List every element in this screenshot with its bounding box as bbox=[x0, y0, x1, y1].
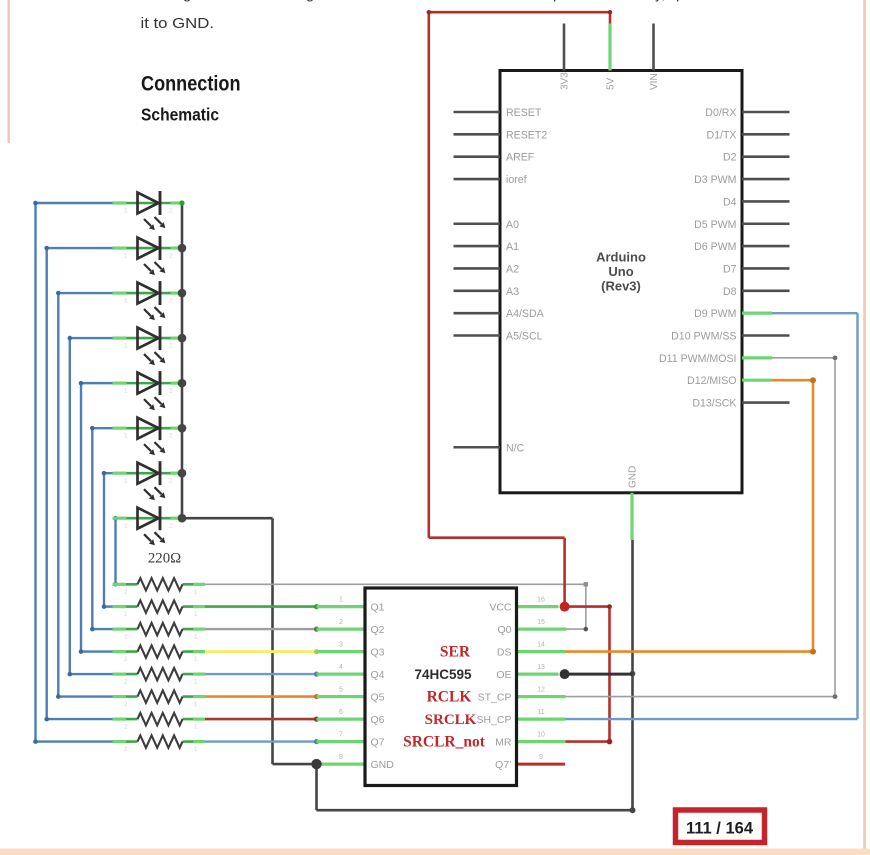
resistor R7 220Ω bbox=[113, 713, 206, 731]
junction dot red wire top left corner bbox=[427, 10, 431, 14]
svg-text:Q0: Q0 bbox=[497, 624, 511, 636]
junction dot bottom rail right corner bbox=[630, 807, 636, 813]
resistor R8 220Ω bbox=[113, 735, 206, 753]
junction dot OE tee on ground riser bbox=[630, 671, 636, 677]
svg-text:D1/TX: D1/TX bbox=[706, 129, 736, 141]
junction dot R5 bottom corner bbox=[68, 672, 73, 677]
pin 5V of Arduino (green stub) bbox=[606, 24, 617, 91]
svg-text:2: 2 bbox=[124, 746, 128, 753]
junction dot LED8 top corner bbox=[113, 516, 118, 521]
junction dot R3 bottom corner bbox=[90, 627, 95, 632]
junction dot VCC (red) bbox=[560, 602, 570, 612]
wire LED6 anode to R3 (blue) bbox=[92, 428, 112, 629]
pin stub Q2 of U1 (green) bbox=[317, 627, 366, 630]
page border right (pink) bbox=[863, 0, 866, 855]
page footer bar (peach) bbox=[0, 849, 870, 855]
truncated text line at top edge bbox=[183, 0, 684, 3]
pin VIN of Arduino bbox=[649, 24, 660, 91]
svg-text:1: 1 bbox=[194, 634, 198, 641]
wire R2 to Q1 (green) bbox=[205, 605, 317, 608]
svg-text:SRCLK: SRCLK bbox=[425, 712, 477, 728]
svg-text:13: 13 bbox=[537, 664, 545, 671]
svg-text:DS: DS bbox=[497, 647, 512, 659]
wire LED8 anode to R1 (blue) bbox=[113, 518, 116, 584]
svg-text:2: 2 bbox=[169, 208, 173, 215]
junction dot VCC right corner (red) bbox=[607, 604, 612, 609]
junction dot GND of U1 (black) bbox=[311, 759, 321, 769]
junction dot LED4 top corner bbox=[68, 336, 73, 341]
svg-text:6: 6 bbox=[339, 709, 343, 716]
junction dot LED5 top corner bbox=[79, 381, 84, 386]
svg-text:D0/RX: D0/RX bbox=[705, 107, 736, 119]
pin A4/SDA of Arduino bbox=[454, 308, 545, 320]
svg-text:111 / 164: 111 / 164 bbox=[686, 820, 754, 838]
LED D6 bbox=[113, 416, 181, 455]
pin A2 of Arduino bbox=[454, 263, 520, 275]
svg-text:8: 8 bbox=[339, 754, 343, 761]
svg-text:ioref: ioref bbox=[506, 174, 527, 186]
svg-text:D11 PWM/MOSI: D11 PWM/MOSI bbox=[659, 353, 737, 365]
svg-text:p: p bbox=[676, 0, 684, 3]
svg-text:4: 4 bbox=[339, 664, 343, 671]
svg-text:A2: A2 bbox=[506, 263, 519, 275]
svg-text:D2: D2 bbox=[723, 152, 737, 164]
svg-text:N/C: N/C bbox=[506, 442, 525, 454]
junction dot LED2 top corner bbox=[44, 246, 49, 251]
svg-text:1: 1 bbox=[124, 343, 128, 350]
label Arduino Uno (Rev3) bbox=[596, 250, 646, 294]
resistor R4 220Ω bbox=[113, 645, 206, 663]
svg-text:Q2: Q2 bbox=[371, 624, 385, 636]
svg-text:220Ω: 220Ω bbox=[148, 551, 181, 567]
junction dot Q0 wire bbox=[584, 627, 589, 632]
junction dot ST_CP corner (gray) bbox=[833, 694, 838, 699]
svg-text:GND: GND bbox=[628, 466, 639, 488]
svg-text:1: 1 bbox=[194, 656, 198, 663]
LED D5 bbox=[113, 371, 181, 410]
svg-text:14: 14 bbox=[537, 642, 545, 649]
svg-text:D6 PWM: D6 PWM bbox=[694, 241, 736, 253]
junction dot R6 bottom corner bbox=[56, 694, 61, 699]
wire 5V supply: Arduino 5V to U1 VCC (red) bbox=[429, 12, 610, 606]
module Arduino Uno (Rev3) body bbox=[500, 71, 742, 493]
junction dot LED6 cathode bbox=[178, 424, 187, 433]
pin A3 of Arduino bbox=[454, 286, 520, 298]
svg-text:A4/SDA: A4/SDA bbox=[506, 308, 545, 320]
pin stub OE of U1 (green) bbox=[517, 672, 559, 675]
pin RESET of Arduino bbox=[454, 107, 542, 119]
page border left (pink) bbox=[7, 0, 9, 143]
wire OE to ground riser (black) bbox=[565, 673, 633, 676]
LED D2 bbox=[113, 236, 181, 275]
wire LED1 anode to R8 (blue) bbox=[36, 203, 113, 742]
svg-text:Q1: Q1 bbox=[371, 602, 385, 614]
junction dot at Q3 wire end bbox=[314, 649, 319, 654]
svg-text:y,: y, bbox=[655, 0, 666, 3]
pin D7 of Arduino bbox=[723, 263, 790, 275]
svg-text:2: 2 bbox=[124, 634, 128, 641]
wire SH_CP to Arduino D9 (blue) bbox=[566, 313, 858, 719]
wire LED cathode bus (dark) bbox=[181, 203, 184, 518]
pin D3 PWM of Arduino bbox=[694, 174, 789, 186]
svg-text:it to GND.: it to GND. bbox=[141, 15, 215, 32]
junction dot LED7 cathode bbox=[178, 469, 187, 478]
svg-text:2: 2 bbox=[124, 701, 128, 708]
wire R7 to Q6 (red) bbox=[205, 718, 317, 721]
svg-text:SH_CP: SH_CP bbox=[476, 714, 511, 726]
svg-text:D4: D4 bbox=[723, 196, 737, 208]
pin D1/TX of Arduino bbox=[706, 129, 789, 141]
junction dot LED1 top corner bbox=[33, 201, 38, 206]
wire VCC to MR (red) bbox=[565, 607, 610, 742]
wire LED7 anode to R2 (blue) bbox=[104, 473, 113, 606]
wire LED2 anode to R7 (blue) bbox=[47, 248, 113, 719]
junction dot D12 corner top (orange) bbox=[810, 377, 816, 383]
junction dot R8 bottom corner bbox=[33, 739, 38, 744]
svg-text:1: 1 bbox=[194, 701, 198, 708]
pin stub Q0 of U1 (green) bbox=[517, 627, 567, 630]
pin GND of Arduino (green stub) bbox=[628, 466, 639, 540]
svg-text:Q5: Q5 bbox=[371, 692, 385, 704]
pin N/C of Arduino bbox=[454, 442, 525, 454]
svg-text:11: 11 bbox=[537, 709, 544, 716]
svg-text:1: 1 bbox=[194, 679, 198, 686]
svg-text:RESET: RESET bbox=[506, 107, 542, 119]
LED D7 bbox=[113, 461, 181, 500]
junction dot LED2 cathode bbox=[178, 244, 187, 253]
pin D0/RX of Arduino bbox=[705, 107, 789, 119]
junction dot red wire top right corner bbox=[608, 10, 612, 14]
svg-text:RCLK: RCLK bbox=[427, 689, 472, 706]
svg-text:Q7: Q7 bbox=[371, 737, 385, 749]
svg-text:74HC595: 74HC595 bbox=[414, 667, 472, 682]
junction dot DS corner bottom (orange) bbox=[810, 649, 816, 655]
svg-text:10: 10 bbox=[537, 732, 545, 739]
junction dot R2 bottom corner bbox=[102, 604, 107, 609]
svg-text:1: 1 bbox=[124, 208, 128, 215]
pin ioref of Arduino bbox=[454, 174, 527, 186]
svg-text:1: 1 bbox=[194, 724, 198, 731]
junction dot LED5 cathode bbox=[178, 379, 187, 388]
svg-text:SRCLR_not: SRCLR_not bbox=[403, 734, 486, 751]
junction dot at Q4 wire end bbox=[314, 672, 319, 677]
svg-text:9: 9 bbox=[539, 754, 543, 761]
pin stub Q5 of U1 (green) bbox=[317, 695, 366, 698]
pin A0 of Arduino bbox=[454, 219, 520, 231]
svg-text:1: 1 bbox=[124, 298, 128, 305]
wire LED4 anode to R5 (blue) bbox=[70, 338, 113, 674]
svg-text:VIN: VIN bbox=[649, 73, 660, 90]
pin stub MR of U1 (green) bbox=[517, 740, 566, 743]
svg-text:D8: D8 bbox=[723, 286, 737, 298]
svg-text:MR: MR bbox=[495, 737, 512, 749]
wire R1 to Q0 (gray, over chip top) bbox=[205, 584, 586, 629]
svg-text:Connection: Connection bbox=[141, 73, 241, 96]
pin D11 PWM/MOSI of Arduino bbox=[659, 353, 772, 365]
wire LED bus to 74HC595 GND (black) bbox=[182, 518, 317, 764]
svg-text:A0: A0 bbox=[506, 219, 519, 231]
svg-text:2: 2 bbox=[339, 619, 343, 626]
resistor R6 220Ω bbox=[113, 690, 206, 708]
svg-text:Schematic: Schematic bbox=[141, 105, 219, 125]
pin RESET2 of Arduino bbox=[454, 129, 548, 141]
svg-text:15: 15 bbox=[537, 619, 545, 626]
svg-text:3: 3 bbox=[339, 642, 343, 649]
svg-text:1: 1 bbox=[194, 589, 198, 596]
resistor R3 220Ω bbox=[113, 623, 206, 641]
pin D10 PWM/SS of Arduino bbox=[671, 331, 789, 343]
junction dot LED1 cathode (green) bbox=[179, 200, 184, 205]
svg-text:1: 1 bbox=[194, 746, 198, 753]
svg-text:Uno: Uno bbox=[608, 264, 633, 279]
svg-text:1: 1 bbox=[124, 478, 128, 485]
page number box 111 / 164 bbox=[676, 810, 765, 843]
wire R6 to Q5 (orange) bbox=[205, 695, 317, 698]
junction dot LED4 cathode bbox=[178, 334, 187, 343]
svg-text:(Rev3): (Rev3) bbox=[601, 279, 641, 294]
wire LED5 anode to R4 (blue) bbox=[81, 383, 113, 651]
svg-text:5: 5 bbox=[339, 687, 343, 694]
svg-text:2: 2 bbox=[169, 253, 173, 260]
svg-text:2: 2 bbox=[124, 656, 128, 663]
svg-text:2: 2 bbox=[169, 298, 173, 305]
pin stub DS of U1 (green) bbox=[517, 650, 566, 653]
svg-text:g: g bbox=[306, 0, 314, 3]
wire DS to Arduino D12/MISO (orange) bbox=[566, 380, 814, 651]
junction dot OE (black) bbox=[560, 669, 570, 679]
junction dot at Q1 wire end bbox=[314, 604, 319, 609]
svg-text:12: 12 bbox=[537, 687, 545, 694]
IC U1 74HC595 body bbox=[365, 588, 517, 786]
pin D6 PWM of Arduino bbox=[694, 241, 789, 253]
pin stub Q7 of U1 (green) bbox=[317, 740, 366, 743]
pin stub VCC of U1 (green) bbox=[517, 605, 559, 608]
svg-text:Q6: Q6 bbox=[371, 714, 385, 726]
pin D5 PWM of Arduino bbox=[694, 219, 789, 231]
junction dot LED7 top corner bbox=[102, 471, 107, 476]
junction dot at Q7 wire end bbox=[314, 739, 319, 744]
pin D12/MISO of Arduino bbox=[687, 375, 772, 387]
svg-text:D5 PWM: D5 PWM bbox=[694, 219, 736, 231]
svg-text:Q3: Q3 bbox=[371, 647, 385, 659]
svg-text:2: 2 bbox=[169, 433, 173, 440]
svg-text:OE: OE bbox=[496, 669, 511, 681]
svg-text:ST_CP: ST_CP bbox=[478, 692, 512, 704]
junction dot R7 bottom corner bbox=[44, 717, 49, 722]
pin stub Q1 of U1 (green) bbox=[317, 605, 366, 608]
junction dot at Q5 wire end bbox=[314, 694, 319, 699]
svg-text:2: 2 bbox=[124, 611, 128, 618]
LED D4 bbox=[113, 326, 181, 365]
svg-text:2: 2 bbox=[169, 523, 173, 530]
svg-text:1: 1 bbox=[339, 597, 343, 604]
svg-text:A3: A3 bbox=[506, 286, 519, 298]
junction square R1 wire corner bbox=[584, 582, 588, 586]
LED D8 bbox=[113, 506, 181, 545]
svg-text:2: 2 bbox=[169, 388, 173, 395]
junction dot LED8 cathode bbox=[178, 514, 187, 523]
wire R4 to Q3 (yellow) bbox=[205, 650, 317, 653]
pin stub SH_CP of U1 (green) bbox=[517, 717, 566, 720]
LED D3 bbox=[113, 281, 181, 320]
svg-text:p: p bbox=[553, 0, 561, 3]
wire Q7' stub (red) bbox=[517, 763, 565, 766]
pin D9 PWM of Arduino bbox=[694, 308, 772, 320]
svg-text:2: 2 bbox=[124, 589, 128, 596]
wire GND junction down to bottom rail (black) bbox=[317, 540, 633, 810]
pin stub Q4 of U1 (green) bbox=[317, 672, 366, 675]
svg-text:AREF: AREF bbox=[506, 152, 535, 164]
svg-text:7: 7 bbox=[339, 732, 343, 739]
junction dot LED3 cathode bbox=[178, 289, 187, 298]
wire R5 to Q4 (blue) bbox=[205, 673, 317, 675]
resistor R1 220Ω bbox=[113, 578, 206, 596]
junction dot LED6 top corner bbox=[90, 426, 95, 431]
svg-text:D13/SCK: D13/SCK bbox=[692, 398, 736, 410]
pin stub ST_CP of U1 (green) bbox=[517, 695, 566, 698]
svg-text:16: 16 bbox=[537, 597, 545, 604]
pin A1 of Arduino bbox=[454, 241, 520, 253]
resistor R5 220Ω bbox=[113, 668, 206, 686]
svg-text:A1: A1 bbox=[506, 241, 519, 253]
svg-text:D3 PWM: D3 PWM bbox=[694, 174, 736, 186]
svg-text:SER: SER bbox=[440, 644, 471, 661]
pin AREF of Arduino bbox=[454, 152, 535, 164]
svg-text:2: 2 bbox=[169, 343, 173, 350]
svg-text:1: 1 bbox=[194, 611, 198, 618]
wire ST_CP to Arduino D11 (gray) bbox=[566, 358, 836, 697]
junction dot D11 corner (gray) bbox=[833, 355, 838, 360]
svg-text:RESET2: RESET2 bbox=[506, 129, 547, 141]
pin D8 of Arduino bbox=[723, 286, 790, 298]
svg-text:1: 1 bbox=[124, 253, 128, 260]
svg-text:D9 PWM: D9 PWM bbox=[694, 308, 736, 320]
svg-text:2: 2 bbox=[124, 724, 128, 731]
pin D13/SCK of Arduino bbox=[692, 398, 789, 410]
junction dot at Q2 wire end bbox=[314, 627, 319, 632]
svg-text:1: 1 bbox=[124, 388, 128, 395]
pin stub Q6 of U1 (green) bbox=[317, 717, 366, 720]
junction dot at Q6 wire end bbox=[314, 717, 319, 722]
svg-text:Arduino: Arduino bbox=[596, 250, 646, 265]
junction dot MR corner (red) bbox=[607, 739, 613, 745]
svg-text:1: 1 bbox=[124, 433, 128, 440]
svg-text:Q4: Q4 bbox=[371, 669, 385, 681]
pin stub GND of U1 (green) bbox=[317, 762, 366, 765]
junction dot R4 bottom corner bbox=[79, 649, 84, 654]
svg-text:D7: D7 bbox=[723, 263, 737, 275]
junction dot R1 bottom corner bbox=[113, 582, 118, 587]
wire R3 to Q2 (gray) bbox=[205, 628, 317, 630]
wire R8 to Q7 (blue) bbox=[205, 740, 317, 742]
resistor R2 220Ω bbox=[113, 600, 206, 618]
pin A5/SCL of Arduino bbox=[454, 331, 543, 343]
LED D1 bbox=[113, 191, 181, 230]
svg-text:g: g bbox=[183, 0, 191, 3]
svg-text:Q7’: Q7’ bbox=[495, 759, 511, 771]
wire LED3 anode to R6 (blue) bbox=[58, 293, 112, 697]
svg-text:5V: 5V bbox=[606, 77, 617, 90]
junction dot LED3 top corner bbox=[56, 291, 61, 296]
pin D2 of Arduino bbox=[723, 152, 790, 164]
svg-text:VCC: VCC bbox=[489, 602, 512, 614]
svg-text:2: 2 bbox=[124, 679, 128, 686]
svg-text:A5/SCL: A5/SCL bbox=[506, 331, 543, 343]
svg-text:GND: GND bbox=[371, 759, 395, 771]
svg-text:D12/MISO: D12/MISO bbox=[687, 375, 736, 387]
svg-text:D10 PWM/SS: D10 PWM/SS bbox=[671, 331, 736, 343]
pin stub Q3 of U1 (green) bbox=[317, 650, 366, 653]
pin D4 of Arduino bbox=[723, 196, 790, 208]
svg-text:2: 2 bbox=[169, 478, 173, 485]
pin 3V3 of Arduino bbox=[560, 24, 571, 91]
svg-text:1: 1 bbox=[124, 523, 128, 530]
svg-text:3V3: 3V3 bbox=[560, 72, 571, 90]
